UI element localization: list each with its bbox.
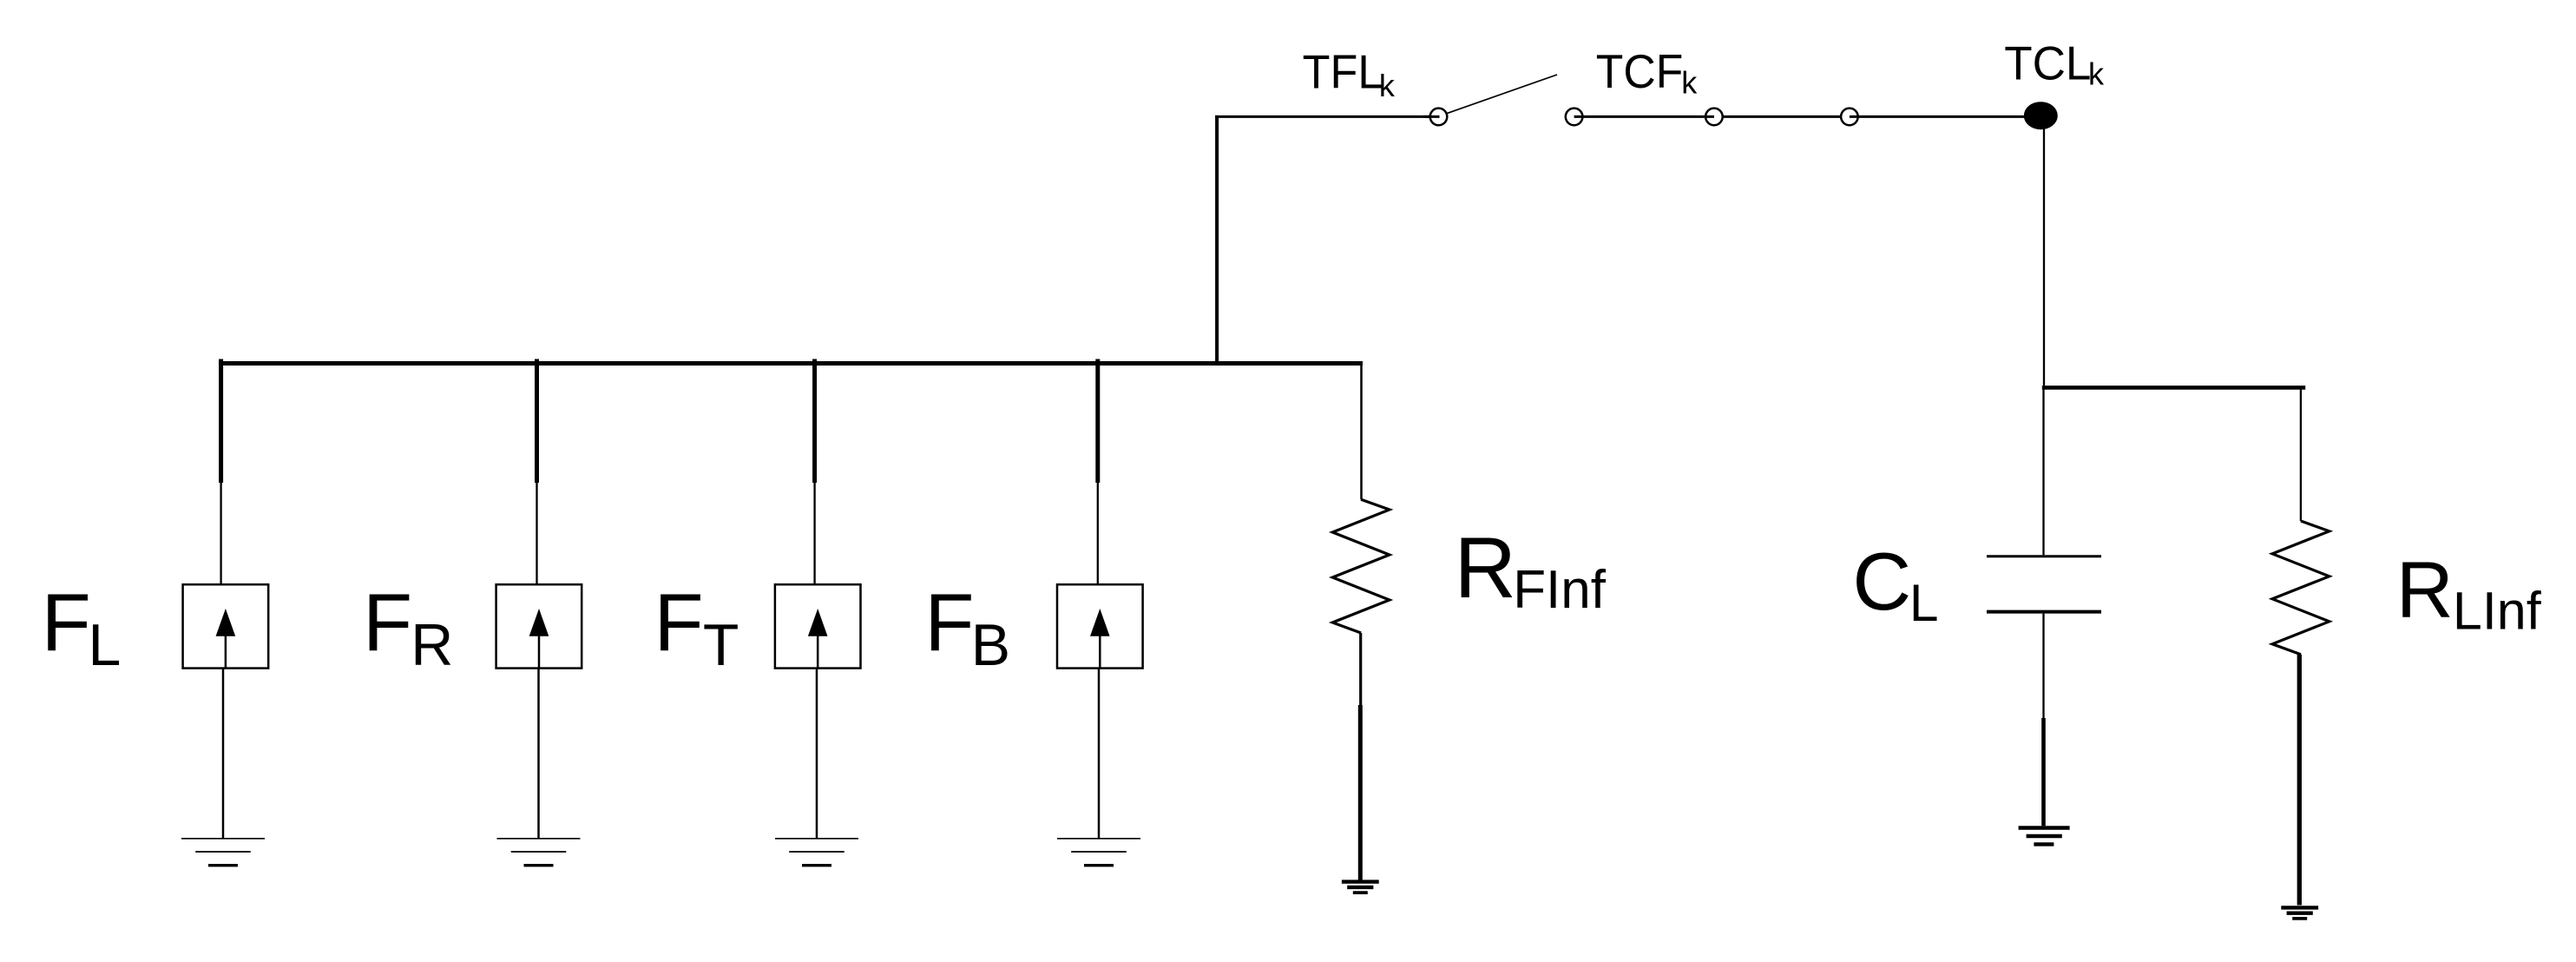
switch TFL_k lever (open) [1447, 75, 1558, 114]
wire into contact A [1423, 115, 1440, 118]
resistor R_FInf [1332, 361, 1390, 880]
svg-text:F: F [42, 577, 91, 668]
svg-text:FInf: FInf [1513, 560, 1607, 620]
svg-text:R: R [2396, 546, 2454, 635]
svg-text:F: F [654, 577, 704, 668]
wire switch B to C [1574, 115, 1714, 118]
ground (F_L) [181, 839, 265, 866]
label F_B [924, 577, 1010, 678]
ground (C_L) [2019, 828, 2070, 845]
ground (R_LInf) [2281, 907, 2318, 919]
wire F_T source to ground [816, 669, 818, 839]
label F_T [654, 577, 739, 678]
node TCL_k (junction dot) [2024, 102, 2058, 129]
wire F_L drop [219, 359, 223, 585]
label TCF_k [1596, 44, 1698, 101]
svg-text:L: L [89, 612, 122, 678]
svg-text:k: k [2088, 56, 2105, 91]
svg-text:TCF: TCF [1596, 44, 1684, 98]
label R_FInf [1455, 519, 1607, 620]
svg-text:T: T [703, 612, 739, 678]
current source F_B [1057, 584, 1143, 668]
wire F_R drop [535, 359, 539, 585]
capacitor C_L [1987, 387, 2101, 826]
current source F_T [775, 584, 861, 668]
switch contact circle D [1841, 109, 1858, 126]
resistor R_LInf [2272, 387, 2330, 905]
wire riser to switch TFL_k [1215, 115, 1438, 366]
switch contact circle C [1705, 109, 1723, 126]
ground (F_T) [775, 839, 858, 866]
label TCL_k [2004, 36, 2105, 92]
svg-text:k: k [1681, 65, 1698, 101]
wire load junction (C_L / R_LInf) [2042, 385, 2305, 390]
label R_LInf [2396, 546, 2542, 641]
svg-text:R: R [1455, 519, 1517, 616]
ground (R_FInf) [1342, 882, 1379, 893]
label F_R [363, 577, 453, 678]
svg-text:TCL: TCL [2004, 36, 2091, 90]
svg-text:C: C [1852, 536, 1911, 627]
ground (F_R) [497, 839, 581, 866]
wire F_R source to ground [537, 669, 540, 839]
wire switch contact C to D (under circles) [1714, 115, 1850, 118]
svg-text:B: B [971, 612, 1010, 678]
wire F_B drop [1095, 359, 1100, 585]
label TFL_k [1303, 45, 1396, 104]
svg-text:TFL: TFL [1303, 45, 1383, 99]
svg-text:L: L [1909, 573, 1939, 632]
wire node TCL_k down to load junction [2043, 127, 2045, 385]
ground (F_B) [1057, 839, 1140, 866]
label F_L [42, 577, 122, 678]
current source F_R [496, 584, 582, 668]
switch contact circle B (TCF_k left) [1566, 109, 1583, 126]
label C_L [1852, 536, 1938, 632]
svg-text:F: F [363, 577, 412, 668]
wire F_T drop [812, 359, 817, 585]
current source F_L [183, 584, 269, 668]
svg-text:R: R [411, 612, 453, 678]
wire switch D to node TCL_k [1850, 115, 2040, 118]
switch contact circle A (TFL_k left) [1430, 109, 1448, 126]
wire F_B source to ground [1098, 669, 1101, 839]
svg-text:k: k [1379, 68, 1396, 103]
svg-text:F: F [924, 577, 974, 668]
wire bus (top horizontal net joining current sources) [219, 361, 1363, 366]
svg-text:LInf: LInf [2453, 582, 2542, 641]
wire F_L source to ground [222, 669, 225, 839]
